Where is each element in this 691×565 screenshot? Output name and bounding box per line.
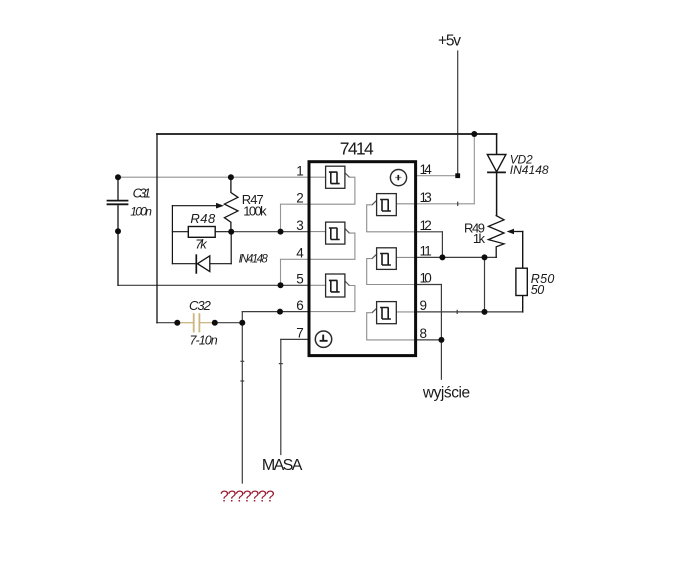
svg-text:12: 12 [420, 218, 432, 233]
svg-text:wyjście: wyjście [422, 384, 470, 401]
svg-text:3: 3 [296, 218, 304, 233]
svg-text:100n: 100n [130, 204, 152, 218]
svg-text:7: 7 [296, 326, 304, 341]
svg-text:C32: C32 [189, 298, 212, 313]
svg-text:2: 2 [296, 190, 304, 205]
svg-text:7414: 7414 [340, 138, 374, 158]
svg-text:8: 8 [420, 326, 428, 341]
svg-text:1k: 1k [473, 231, 486, 246]
svg-text:???????: ??????? [220, 489, 275, 506]
svg-text:7k: 7k [195, 237, 208, 252]
svg-text:50: 50 [531, 283, 545, 297]
svg-text:IN4148: IN4148 [510, 163, 549, 177]
svg-text:11: 11 [420, 244, 432, 259]
svg-text:100k: 100k [243, 203, 267, 218]
svg-text:6: 6 [296, 298, 304, 313]
svg-text:1: 1 [296, 163, 304, 178]
svg-text:7-10n: 7-10n [190, 334, 218, 348]
svg-text:MASA: MASA [262, 457, 303, 474]
svg-text:R48: R48 [190, 211, 216, 226]
svg-text:4: 4 [296, 246, 304, 261]
svg-text:C31: C31 [133, 185, 151, 200]
svg-text:9: 9 [420, 298, 428, 313]
svg-text:10: 10 [420, 271, 432, 286]
svg-text:14: 14 [420, 162, 433, 177]
svg-text:+5v: +5v [438, 33, 461, 50]
svg-text:5: 5 [296, 272, 304, 287]
svg-text:IN4148: IN4148 [239, 253, 269, 265]
svg-text:13: 13 [420, 190, 432, 205]
